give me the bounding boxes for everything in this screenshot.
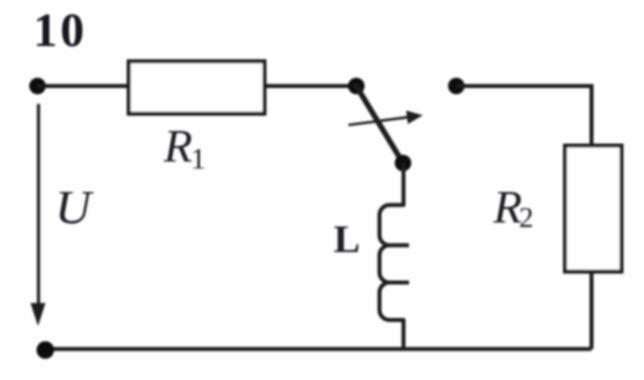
wire (R2 bottom to bottom rail)	[590, 272, 594, 350]
wire (top-left node to R1)	[38, 84, 131, 88]
svg-text:R: R	[163, 121, 193, 173]
wire (bottom rail)	[45, 347, 592, 351]
wire (top-right node to R2)	[456, 86, 591, 146]
svg-text:1: 1	[191, 143, 206, 176]
node E (bottom-left terminal)	[37, 341, 55, 359]
voltage source U (arrow)	[37, 104, 40, 308]
switch SW blade	[356, 86, 403, 163]
node B (switch pivot)	[348, 78, 365, 95]
wire (inductor bottom to bottom rail)	[402, 320, 406, 349]
resistor R1	[129, 61, 265, 113]
node A (top-left terminal)	[29, 78, 46, 95]
node C (switch lower contact)	[395, 155, 412, 172]
svg-text:L: L	[334, 217, 360, 261]
wire (switch contact down to inductor)	[402, 163, 406, 205]
resistor R2	[565, 146, 622, 272]
switch actuation arrow	[348, 108, 424, 131]
inductor L	[380, 205, 410, 320]
wire (R1 to switch pivot)	[263, 84, 356, 88]
svg-text:2: 2	[519, 202, 534, 234]
svg-text:U: U	[55, 182, 94, 235]
node D (top-right terminal)	[448, 78, 465, 95]
svg-text:10: 10	[33, 4, 87, 57]
svg-text:R: R	[492, 182, 522, 234]
